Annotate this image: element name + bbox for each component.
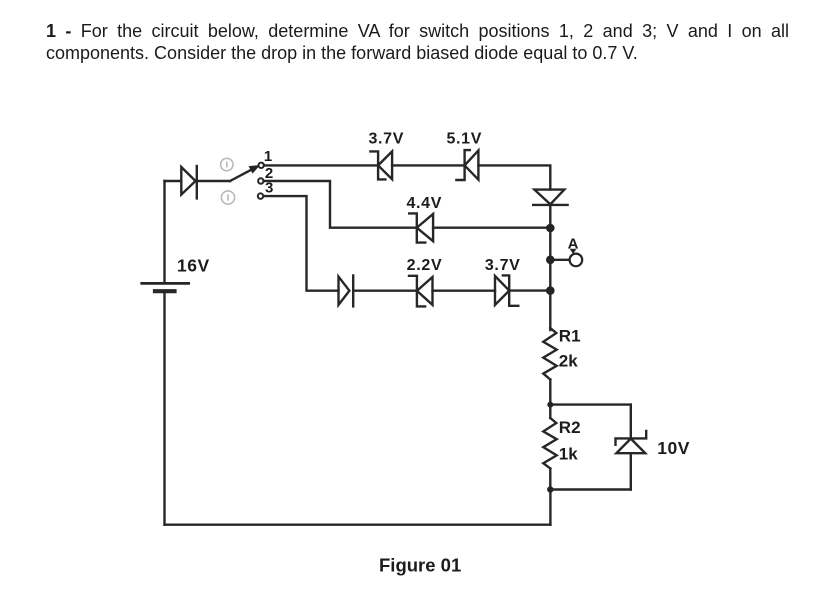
wire: zener Z1 to zener Z2 (392, 164, 465, 166)
switch SW1 arm arrowhead (249, 166, 259, 173)
diode D1 cathode bar (196, 166, 198, 198)
switch SW1 arm (230, 170, 252, 181)
wire: zener Z4 to zener Z5 (433, 290, 496, 292)
diode D1 triangle (181, 167, 195, 195)
faint position marker circle lower (221, 191, 234, 204)
wire: stub from left vertical to diode D1 anode (165, 180, 182, 182)
junction dot: node A tap (546, 255, 555, 264)
zener Z4 2.2V cathode bar with hooks (409, 276, 425, 307)
wire: left vertical from diode D1 level down to battery positive plate (163, 181, 165, 282)
wire: bottom right vertical up to R2 bottom junction (549, 490, 551, 525)
svg-text:1k: 1k (559, 444, 578, 463)
wire: bottom rail (165, 524, 551, 526)
zener Z6 10V triangle pointing up (616, 439, 645, 454)
zener Z5 3.7V cathode bar with hooks (503, 275, 518, 305)
wire: contact 3 right then down to bottom diode branch (264, 196, 339, 291)
diode D3 cathode bar (352, 276, 354, 307)
wire: diode D2 cathode down through junctions to R1 (549, 205, 551, 330)
junction dot: R2 bottom (547, 486, 553, 492)
wire: R1/R2 junction stub into R2 (549, 405, 551, 418)
wire: R2 zigzag bottom stub (549, 469, 551, 490)
resistor R1 2k zigzag (543, 328, 556, 380)
junction dot: 4.4V branch joins right vertical (546, 224, 555, 233)
svg-text:R2: R2 (559, 418, 581, 437)
zener Z3 4.4V cathode bar with hooks (409, 213, 425, 242)
wire: diode D3 to zener Z4 (353, 290, 417, 292)
battery B1 16V positive plate (142, 282, 189, 285)
zener Z6 10V cathode bar with hooks (616, 431, 647, 445)
wire: battery negative down to bottom rail (163, 294, 165, 525)
wire: zener Z3 to right vertical junction (433, 226, 550, 228)
zener Z4 2.2V triangle (417, 277, 433, 305)
svg-text:1: 1 (264, 148, 272, 165)
svg-text:5.1V: 5.1V (446, 131, 482, 148)
node A terminal circle (570, 254, 583, 267)
svg-text:2.2V: 2.2V (407, 257, 443, 274)
svg-text:A: A (568, 235, 579, 252)
battery B1 16V negative plate (155, 289, 175, 293)
svg-text:Figure 01: Figure 01 (379, 555, 461, 576)
svg-text:4.4V: 4.4V (406, 195, 442, 212)
wire: zener Z6 bottom vertical (630, 453, 632, 489)
svg-text:10V: 10V (657, 438, 690, 458)
node A pointer arrowhead (570, 249, 577, 254)
diode D2 triangle pointing down (534, 190, 564, 205)
wire: zener Z2 to top right corner, down to diode D2 (478, 165, 550, 189)
svg-text:3: 3 (265, 179, 273, 196)
zener Z2 5.1V triangle (465, 150, 479, 179)
switch contact 3 (258, 193, 263, 198)
switch contact 2 (258, 178, 263, 183)
faint position marker circle upper (221, 158, 233, 170)
zener Z2 5.1V cathode bar with hooks (456, 150, 469, 180)
wire: R2 top rail to zener branch (550, 403, 631, 405)
diode D2 cathode bar (533, 204, 567, 206)
wire: R1 bottom to R2 top rail corner (549, 380, 551, 405)
diode D3 triangle (339, 277, 350, 305)
wire: R2 bottom rail (550, 488, 630, 490)
svg-text:2k: 2k (559, 351, 578, 370)
wire: contact 1 to zener Z1 (264, 164, 378, 166)
svg-text:16V: 16V (177, 256, 210, 276)
wire: zener Z6 top vertical (630, 405, 632, 439)
zener Z1 3.7V triangle (378, 151, 392, 179)
wire: zener Z5 to right vertical junction (509, 289, 550, 291)
svg-text:R1: R1 (559, 327, 581, 346)
svg-text:3.7V: 3.7V (485, 257, 521, 274)
wire: node A stub (550, 259, 569, 261)
zener Z1 3.7V cathode bar with hooks (370, 151, 385, 179)
zener Z3 4.4V triangle (417, 214, 433, 241)
junction dot: bottom diode branch joins (546, 286, 555, 295)
zener Z5 3.7V triangle (495, 276, 509, 305)
switch contact 1 (259, 163, 264, 168)
svg-text:3.7V: 3.7V (368, 131, 404, 148)
wire: contact 2 right then down to 4.4V branch (264, 181, 417, 228)
wire: diode D1 cathode to switch pivot (197, 180, 230, 182)
junction dot: R2 top (547, 402, 553, 408)
resistor R2 1k zigzag (543, 418, 556, 469)
